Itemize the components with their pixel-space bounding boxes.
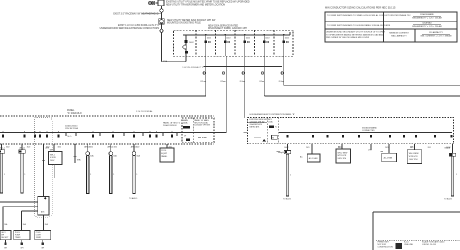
svg-text:20/1: 20/1 <box>385 147 389 149</box>
svg-text:EXIST 3-2" RACEWAY W/ WEATHERH: EXIST 3-2" RACEWAY W/ WEATHERHEAD <box>113 13 158 16</box>
svg-text:AHU-2: AHU-2 <box>20 147 26 150</box>
svg-text:20/1: 20/1 <box>428 147 431 149</box>
svg-text:DISCONNECT SWBD, 120/240V 1PH: DISCONNECT SWBD, 120/240V 1PH <box>208 28 247 30</box>
svg-text:WTR HTR: WTR HTR <box>338 155 347 157</box>
svg-text:100/2: 100/2 <box>285 38 290 40</box>
svg-text:PER OWNER 30" BELOW GRADE MIN: PER OWNER 30" BELOW GRADE MIN COVER <box>326 36 370 39</box>
svg-text:1: 1 <box>90 174 91 176</box>
svg-text:MIN. CURRENT = 1.175 × 388 AM: MIN. CURRENT = 1.175 × 388 AM <box>421 34 452 37</box>
svg-text:20/1: 20/1 <box>306 147 310 149</box>
svg-text:CONNECTED: CONNECTED <box>362 130 375 132</box>
svg-text:1: 1 <box>136 174 137 176</box>
svg-text:240V 1PH: 240V 1PH <box>338 158 347 160</box>
svg-text:N.O.: N.O. <box>68 136 73 138</box>
svg-text:320A DEMAND: 320A DEMAND <box>420 13 434 16</box>
svg-text:WH-1: WH-1 <box>50 154 55 156</box>
svg-text:1: 1 <box>290 175 291 177</box>
svg-text:NEW UTILITY METER 320A SOCKET: NEW UTILITY METER 320A SOCKET 1PH 3W <box>167 19 216 22</box>
svg-text:1: 1 <box>24 174 25 176</box>
svg-text:POOL: POOL <box>161 150 166 152</box>
svg-text:30/2: 30/2 <box>136 147 140 149</box>
svg-text:30/2: 30/2 <box>27 147 31 149</box>
svg-text:120/240V 1PH 3W: 120/240V 1PH 3W <box>250 121 265 123</box>
svg-text:320 AMPACITY: 320 AMPACITY <box>429 31 444 34</box>
svg-text:200A 120/240V: 200A 120/240V <box>163 124 177 127</box>
svg-text:MAX. AMPACITY: MAX. AMPACITY <box>391 35 407 38</box>
svg-text:EXIST 1 LV CU 4-350 KCMIL AL I: EXIST 1 LV CU 4-350 KCMIL AL IN 3" C <box>118 24 159 27</box>
svg-text:200A: 200A <box>183 121 188 124</box>
svg-text:30/2: 30/2 <box>6 147 10 149</box>
svg-text:1: 1 <box>4 174 5 176</box>
svg-text:#12: #12 <box>200 81 203 83</box>
svg-text:AHU-5: AHU-5 <box>131 146 137 149</box>
svg-text:PANEL "A" SECT 2: PANEL "A" SECT 2 <box>163 121 181 124</box>
svg-text:NEW 320A SERVICE RATED: NEW 320A SERVICE RATED <box>208 24 239 27</box>
svg-text:AC-2 FAN: AC-2 FAN <box>384 157 393 160</box>
svg-text:100/2: 100/2 <box>207 38 212 40</box>
svg-text:240V 1PH: 240V 1PH <box>409 159 418 161</box>
svg-text:XFMR: XFMR <box>36 237 42 239</box>
svg-text:200/2: 200/2 <box>189 42 194 44</box>
svg-text:#12: #12 <box>259 81 262 83</box>
svg-text:PANEL: PANEL <box>67 109 75 112</box>
svg-text:MIN AMPACITY = 1.25 × 256 AM: MIN AMPACITY = 1.25 × 256 AM <box>412 25 442 28</box>
svg-text:1: 1 <box>113 174 114 176</box>
svg-text:100/2: 100/2 <box>226 38 231 40</box>
svg-text:320A MAX: 320A MAX <box>422 22 432 25</box>
svg-text:TIMER: TIMER <box>15 237 21 239</box>
svg-text:TO BLDG: TO BLDG <box>444 199 452 201</box>
svg-text:UNDERGROUND SERVICE ENTRANCE C: UNDERGROUND SERVICE ENTRANCE CONDUCTORS <box>100 27 160 30</box>
svg-text:1: 1 <box>456 174 457 176</box>
svg-text:4.5KW: 4.5KW <box>50 157 56 159</box>
svg-text:30/2: 30/2 <box>114 147 118 149</box>
svg-text:#12: #12 <box>220 81 223 83</box>
svg-text:CONSTRUCTION: CONSTRUCTION <box>378 246 394 248</box>
svg-text:ONE-LINE: ONE-LINE <box>404 244 414 246</box>
svg-text:Bldg B: Bldg B <box>445 147 451 149</box>
svg-text:EXISTING UTILITY POLE MOUNTED: EXISTING UTILITY POLE MOUNTED XFMR TO BE… <box>166 1 250 4</box>
svg-text:"A" 200A MLO: "A" 200A MLO <box>67 112 82 115</box>
svg-text:AHU-1: AHU-1 <box>0 147 5 150</box>
svg-text:WH-3 NEW: WH-3 NEW <box>409 153 419 155</box>
svg-text:120/240V 1PH 3W: 120/240V 1PH 3W <box>194 125 210 127</box>
svg-text:GFI: GFI <box>20 248 23 250</box>
svg-text:TO XFMR (METER BASED) METERING: TO XFMR (METER BASED) METERING MAXIMUM L… <box>326 33 384 36</box>
svg-text:HOUSE/EMERGENCY DISTRIBUTION P: HOUSE/EMERGENCY DISTRIBUTION PANEL "B" <box>250 113 296 116</box>
svg-text:MIN AMPACITY = 1.25 × 256 AM: MIN AMPACITY = 1.25 × 256 AM <box>412 16 442 19</box>
svg-text:GFI: GFI <box>4 248 7 250</box>
svg-text:MIN CONDUCTOR SIZING CALCULATI: MIN CONDUCTOR SIZING CALCULATIONS PER NE… <box>325 7 396 10</box>
svg-text:30/2: 30/2 <box>58 147 62 149</box>
svg-text:#12: #12 <box>239 81 242 83</box>
svg-text:UNDERGROUND SECONDARY UTILITY: UNDERGROUND SECONDARY UTILITY SOURCE "A"… <box>326 31 386 34</box>
svg-text:NEW UTILITY TRANSFORMER AND ME: NEW UTILITY TRANSFORMER AND METER LOCATI… <box>166 3 225 6</box>
svg-text:EQUIP: EQUIP <box>161 153 168 155</box>
svg-text:240V: 240V <box>50 160 55 162</box>
svg-text:GFI: GFI <box>41 248 44 250</box>
svg-text:MINIMUM CURRENT: MINIMUM CURRENT <box>389 33 409 35</box>
svg-text:TO XFMR SWITCHBOARD TO HOUSE P: TO XFMR SWITCHBOARD TO HOUSE PANEL 3#3/0… <box>327 24 391 27</box>
svg-text:100/2: 100/2 <box>246 38 251 40</box>
svg-text:33kVA DEMAND: 33kVA DEMAND <box>362 126 377 129</box>
svg-text:MOUNTED ON EXISTING POLE: MOUNTED ON EXISTING POLE <box>167 23 201 25</box>
svg-text:PANEL: PANEL <box>161 155 167 158</box>
svg-text:WTR HTR: WTR HTR <box>409 156 418 158</box>
svg-text:1 LV CU 3#3/0 AL: 1 LV CU 3#3/0 AL <box>136 110 153 113</box>
svg-text:1 LV CU 4#1/0 AL 2" C: 1 LV CU 4#1/0 AL 2" C <box>182 66 203 69</box>
svg-text:AHU-4: AHU-4 <box>108 146 114 149</box>
svg-text:1PH 3W 22KA: 1PH 3W 22KA <box>65 127 79 130</box>
svg-text:SCALE: NTS DATE: 04/20: SCALE: NTS DATE: 04/20 <box>422 241 444 244</box>
svg-text:AC-1 FAN: AC-1 FAN <box>309 157 318 160</box>
svg-text:100/2: 100/2 <box>265 38 270 40</box>
svg-text:AHU-3: AHU-3 <box>84 146 90 149</box>
svg-text:WH-2 NEW: WH-2 NEW <box>338 152 348 154</box>
svg-text:JOB NO. 20-114: JOB NO. 20-114 <box>422 244 436 246</box>
svg-text:RATED ATS: RATED ATS <box>250 125 261 128</box>
svg-text:200A 120/240: 200A 120/240 <box>65 124 78 127</box>
svg-text:RECEPT: RECEPT <box>1 237 9 239</box>
svg-text:TO BLDG: TO BLDG <box>283 199 291 201</box>
svg-text:TO AHU-5: TO AHU-5 <box>129 197 137 200</box>
svg-text:#12: #12 <box>278 81 281 83</box>
svg-text:TO XFMR SWITCHBOARD TO SWBD 4-: TO XFMR SWITCHBOARD TO SWBD 4-350 KCMIL … <box>327 14 411 17</box>
